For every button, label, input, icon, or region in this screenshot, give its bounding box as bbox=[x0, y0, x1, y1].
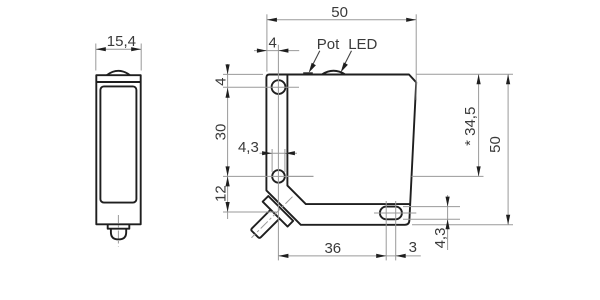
svg-text:50: 50 bbox=[331, 4, 348, 21]
svg-text:12: 12 bbox=[212, 185, 229, 202]
svg-text:15,4: 15,4 bbox=[107, 33, 136, 50]
svg-text:4: 4 bbox=[269, 34, 277, 51]
svg-text:* 34,5: * 34,5 bbox=[462, 107, 479, 146]
svg-text:4,3: 4,3 bbox=[238, 139, 259, 156]
svg-text:36: 36 bbox=[324, 240, 341, 257]
svg-text:LED: LED bbox=[348, 36, 377, 53]
svg-text:Pot: Pot bbox=[317, 36, 340, 53]
svg-text:30: 30 bbox=[212, 124, 229, 141]
svg-text:3: 3 bbox=[409, 239, 417, 256]
svg-text:4,3: 4,3 bbox=[432, 228, 449, 249]
svg-text:4: 4 bbox=[212, 78, 229, 86]
svg-text:50: 50 bbox=[487, 136, 504, 153]
